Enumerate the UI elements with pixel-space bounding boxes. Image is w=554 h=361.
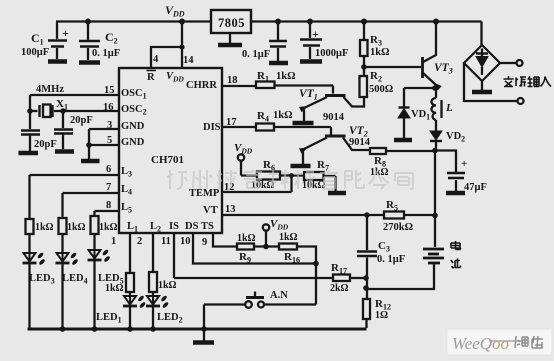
svg-text:8: 8	[106, 200, 111, 211]
svg-text:1kΩ: 1kΩ	[35, 222, 54, 233]
svg-text:270kΩ: 270kΩ	[383, 222, 413, 233]
svg-text:9014: 9014	[323, 112, 345, 123]
svg-text:10: 10	[180, 236, 191, 247]
svg-text:9: 9	[202, 237, 207, 248]
svg-text:100μF: 100μF	[21, 47, 49, 58]
svg-text:3: 3	[107, 120, 112, 131]
svg-text:VT: VT	[203, 205, 218, 216]
svg-text:DIS: DIS	[203, 122, 221, 133]
svg-text:TEMP: TEMP	[189, 188, 220, 199]
svg-text:14: 14	[183, 55, 194, 66]
svg-text:1kΩ: 1kΩ	[279, 232, 298, 243]
svg-text:9014: 9014	[349, 137, 371, 148]
svg-text:1kΩ: 1kΩ	[276, 71, 296, 82]
svg-text:20pF: 20pF	[70, 115, 93, 126]
svg-text:13: 13	[225, 204, 236, 215]
svg-text:CH701: CH701	[151, 154, 184, 166]
svg-text:CHRR: CHRR	[186, 80, 217, 91]
svg-text:0. 1μF: 0. 1μF	[242, 49, 270, 60]
svg-text:L: L	[445, 102, 453, 114]
svg-text:1kΩ: 1kΩ	[99, 222, 118, 233]
svg-text:IS: IS	[169, 221, 179, 232]
svg-text:A.N: A.N	[270, 290, 288, 301]
svg-text:0. 1μF: 0. 1μF	[377, 254, 405, 265]
svg-text:1kΩ: 1kΩ	[67, 222, 86, 233]
svg-text:0. 1μF: 0. 1μF	[92, 48, 120, 59]
svg-text:oo: oo	[492, 334, 509, 353]
svg-text:10kΩ: 10kΩ	[302, 180, 326, 191]
svg-text:TS: TS	[201, 221, 214, 232]
svg-text:1kΩ: 1kΩ	[273, 110, 293, 121]
svg-text:1: 1	[111, 236, 116, 247]
svg-text:GND: GND	[121, 121, 145, 132]
svg-text:47μF: 47μF	[464, 182, 487, 193]
svg-text:4MHz: 4MHz	[36, 84, 64, 95]
svg-text:1kΩ: 1kΩ	[237, 233, 256, 244]
svg-text:R: R	[147, 72, 155, 83]
svg-text:20pF: 20pF	[34, 139, 57, 150]
svg-text:2: 2	[137, 236, 142, 247]
svg-text:7: 7	[106, 182, 111, 193]
svg-text:WeeQ: WeeQ	[452, 334, 492, 353]
svg-text:GND: GND	[121, 137, 145, 148]
svg-text:1000μF: 1000μF	[315, 48, 348, 59]
svg-text:18: 18	[227, 75, 238, 86]
svg-text:5: 5	[107, 135, 112, 146]
svg-text:+: +	[62, 26, 69, 40]
svg-text:2kΩ: 2kΩ	[330, 283, 349, 294]
svg-text:1Ω: 1Ω	[375, 310, 388, 321]
svg-text:17: 17	[226, 117, 237, 128]
svg-text:1kΩ: 1kΩ	[370, 47, 390, 58]
svg-text:1kΩ: 1kΩ	[158, 280, 177, 291]
svg-text:+: +	[312, 27, 319, 41]
svg-text:4: 4	[153, 54, 159, 65]
svg-text:DS: DS	[185, 221, 199, 232]
svg-text:1kΩ: 1kΩ	[105, 283, 124, 294]
svg-text:15: 15	[104, 85, 115, 96]
svg-text:6: 6	[106, 164, 111, 175]
svg-text:11: 11	[161, 236, 171, 247]
svg-text:16: 16	[103, 102, 114, 113]
svg-text:+: +	[461, 158, 467, 170]
svg-text:7805: 7805	[218, 16, 245, 30]
svg-text:500Ω: 500Ω	[369, 84, 393, 95]
